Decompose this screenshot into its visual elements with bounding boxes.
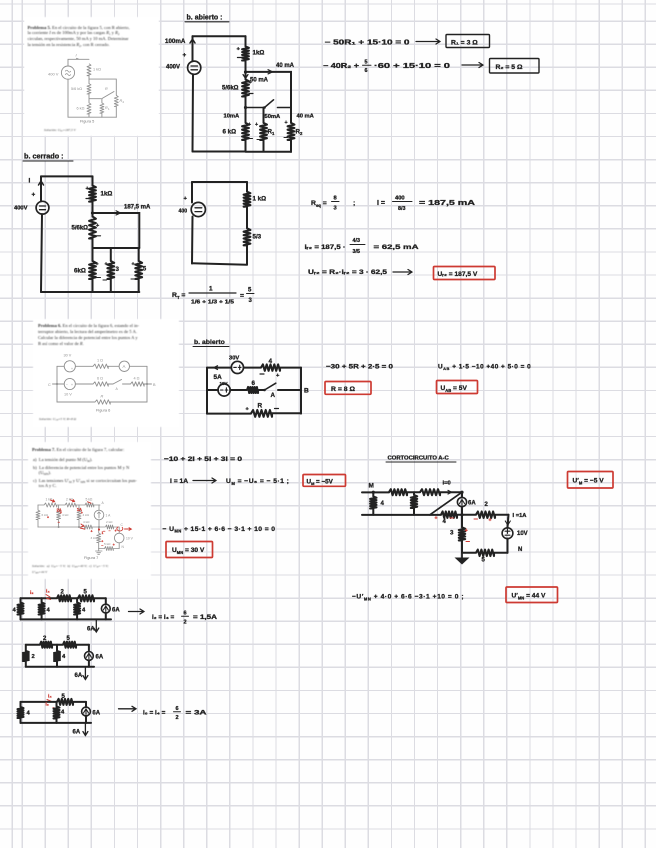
- svg-text:5: 5: [143, 266, 147, 273]
- red polarity marks resistor 2: [474, 518, 478, 520]
- wire 187,5 mA branch: [93, 213, 140, 248]
- wire top circuit B: [26, 644, 89, 646]
- svg-text:−30 + 5R + 2·5 = 0: −30 + 5R + 2·5 = 0: [326, 363, 393, 370]
- svg-text:1: 1: [108, 107, 110, 111]
- svg-text:−: −: [66, 383, 68, 387]
- svg-text:6: 6: [365, 68, 368, 74]
- resistor 2 top circuit A: [57, 595, 71, 601]
- svg-text:40 mA: 40 mA: [276, 63, 295, 69]
- resistor 4 P6: [261, 364, 280, 370]
- figura 5 wire node to R2 branch: [89, 75, 116, 95]
- svg-text:4: 4: [62, 654, 66, 660]
- resistor 4 second circuit A: [41, 598, 43, 619]
- current arrow I P5c: [39, 181, 44, 189]
- resistor 5 P5c: [138, 248, 140, 292]
- voltage source V3 simplified: [191, 182, 194, 264]
- svg-text:Figura 5: Figura 5: [80, 119, 94, 124]
- svg-text:100mA: 100mA: [165, 38, 186, 45]
- svg-text:i=0: i=0: [443, 481, 451, 487]
- svg-text:A: A: [123, 364, 126, 369]
- figura 7 resistor 4kOhm middle: [83, 525, 93, 529]
- svg-text:= 3A: = 3A: [186, 710, 208, 717]
- figura 6 left wire node C: [53, 366, 65, 402]
- resistor 4 middle circuit C: [56, 702, 58, 723]
- svg-text:+: +: [71, 367, 73, 371]
- svg-text:UM = −5V: UM = −5V: [307, 478, 334, 486]
- svg-text:+: +: [115, 529, 117, 533]
- svg-text:= 187,5 mA: = 187,5 mA: [419, 200, 475, 207]
- svg-text:2: 2: [32, 654, 35, 660]
- svg-text:4: 4: [47, 608, 51, 614]
- resistor 6kOhm P5c: [89, 261, 96, 279]
- svg-text:4 kΩ: 4 kΩ: [83, 520, 90, 524]
- svg-text:N: N: [518, 547, 522, 553]
- svg-text:UMN = 30 V: UMN = 30 V: [172, 547, 205, 555]
- figura 7 middle wire: [38, 526, 119, 528]
- arrow to equation C: [119, 706, 137, 711]
- resistor 3 P5c: [110, 248, 112, 292]
- ground symbol cortocircuito: [461, 553, 463, 558]
- svg-text:I =: I =: [377, 200, 385, 207]
- node switch level: [244, 106, 247, 109]
- svg-text:6A: 6A: [87, 627, 95, 633]
- svg-text:N: N: [122, 545, 125, 549]
- svg-text:5/3: 5/3: [253, 234, 262, 241]
- svg-text:+: +: [96, 223, 100, 229]
- svg-text:1: 1: [272, 131, 275, 136]
- svg-text:4: 4: [381, 500, 385, 507]
- figura 7 resistor 2kOhm middle: [106, 525, 114, 529]
- svg-text:− 40R₂ +: − 40R₂ +: [323, 63, 359, 70]
- figura 6 resistor 6 Ohm: [93, 382, 108, 386]
- wire bottom P5a: [193, 140, 292, 152]
- svg-text:4: 4: [61, 710, 65, 716]
- svg-text:U′MN = 44 V: U′MN = 44 V: [512, 593, 547, 601]
- wire top P6 with left arrow: [207, 367, 301, 369]
- svg-text:−: −: [66, 360, 68, 364]
- resistor 6 P6: [247, 387, 258, 393]
- arrow to R2 result: [462, 63, 483, 68]
- voltage source V2 400V: [40, 176, 42, 201]
- svg-text:UM = −U₅ = − 5·1 ;: UM = −U₅ = − 5·1 ;: [226, 478, 289, 486]
- figura 5 wire top with current arrow I: [68, 58, 89, 66]
- svg-text:A: A: [271, 392, 276, 399]
- svg-text:A: A: [116, 387, 119, 391]
- svg-text:1/6 + 1/3 + 1/5: 1/6 + 1/3 + 1/5: [191, 300, 234, 306]
- resistor R1 P5a: [260, 123, 267, 140]
- resistor R2 P5a: [288, 123, 295, 140]
- wire left P5c: [41, 214, 42, 292]
- red boxed answer UR2 = 187,5 V: [434, 267, 496, 280]
- svg-text:i₄: i₄: [48, 694, 52, 700]
- svg-text:10mA: 10mA: [224, 114, 241, 120]
- svg-text:5/6kΩ: 5/6kΩ: [72, 226, 89, 232]
- resistor 1kOhm P5c: [89, 186, 96, 202]
- svg-text:R: R: [101, 395, 104, 399]
- wire top P5c: [41, 175, 93, 177]
- svg-text:50 mA: 50 mA: [250, 78, 269, 84]
- resistor top-right cortocircuito: [420, 489, 440, 495]
- wire right P6: [300, 368, 302, 414]
- figura 7 left resistor 6kOhm: [37, 505, 39, 527]
- node top-right junction: [244, 70, 247, 73]
- voltage source 10V cortocircuito: [508, 515, 509, 528]
- svg-text:+: +: [81, 511, 83, 515]
- switch open P5a: [246, 100, 292, 108]
- svg-text:Figura 7: Figura 7: [84, 555, 98, 560]
- boxed answer R2 = 5 Ohm: [490, 59, 540, 74]
- svg-text:+: +: [489, 518, 492, 524]
- svg-text:i₂ = i₄ =: i₂ = i₄ =: [152, 614, 175, 621]
- svg-text:i₄: i₄: [46, 589, 50, 595]
- svg-text:+: +: [435, 516, 438, 522]
- wire bottom circuit B: [26, 666, 94, 668]
- svg-text:+: +: [184, 196, 188, 202]
- wire right down to bottom: [507, 539, 509, 553]
- svg-text:6: 6: [252, 380, 256, 387]
- resistor 1kOhm simplified: [246, 182, 248, 192]
- svg-text:2: 2: [485, 502, 489, 508]
- resistor 2 top circuit B: [40, 642, 52, 648]
- svg-text:+: +: [101, 540, 103, 544]
- svg-text:400V: 400V: [14, 206, 28, 212]
- figura 7 resistor 5kOhm top: [85, 503, 94, 507]
- svg-text:+: +: [255, 122, 258, 128]
- figura 5 printed voltage source 400V: [61, 66, 74, 79]
- resistor 3 vertical cortocircuito: [460, 513, 463, 516]
- wire left P6: [206, 368, 208, 414]
- resistor 5/3 simplified: [244, 228, 251, 245]
- figura 7 v-resistor 2: [58, 505, 60, 527]
- current source 6A circuit C: [85, 702, 87, 723]
- resistor 5/6kOhm P5a: [242, 80, 249, 97]
- svg-text:B: B: [153, 383, 156, 387]
- svg-text:1: 1: [209, 286, 213, 293]
- svg-text:10 V: 10 V: [64, 393, 72, 397]
- figura 6 resistor 4 Ohm: [131, 382, 145, 386]
- scan box problema 7: [28, 442, 151, 579]
- svg-text:R: R: [258, 403, 263, 410]
- svg-text:6A: 6A: [112, 607, 120, 613]
- svg-text:5/6 kΩ: 5/6 kΩ: [71, 87, 82, 91]
- resistor 5 top circuit C: [57, 699, 73, 705]
- arrow to R1 result: [416, 39, 440, 44]
- svg-text:5: 5: [84, 590, 88, 596]
- figura 7 top wire: [38, 504, 100, 506]
- svg-text:+: +: [113, 543, 115, 547]
- wire bottom circuit A: [21, 618, 112, 620]
- svg-text:−: −: [58, 520, 61, 525]
- wire R1 branch down: [263, 108, 265, 123]
- red boxed answer U'MN = 44V: [506, 587, 558, 603]
- figura 7 resistor 2kOhm top: [65, 503, 76, 507]
- figura 5 resistor 5/6 kOhm: [87, 84, 91, 94]
- svg-text:5 kΩ: 5 kΩ: [104, 542, 111, 546]
- wire top circuit C: [21, 701, 87, 703]
- svg-text:4: 4: [82, 608, 86, 614]
- svg-text:2: 2: [300, 131, 303, 136]
- svg-text:+: +: [248, 122, 251, 128]
- red boxed answer UM = -5V: [303, 475, 346, 487]
- wire top cortocircuito: [362, 491, 462, 493]
- svg-text:4: 4: [269, 358, 273, 365]
- svg-text:4 kΩ: 4 kΩ: [62, 513, 69, 517]
- svg-text:400: 400: [395, 196, 405, 202]
- svg-text:i₂: i₂: [46, 702, 49, 707]
- red boxed answer U'M = -5 V: [568, 472, 614, 489]
- red boxed answer UAB = 5V: [437, 381, 478, 394]
- svg-text:4 kΩ: 4 kΩ: [83, 513, 90, 517]
- figura 7 v-resistor 3kOhm: [98, 527, 100, 549]
- svg-text:CORTOCIRCUITO A-C: CORTOCIRCUITO A-C: [388, 456, 450, 462]
- svg-text:8/3: 8/3: [398, 206, 405, 212]
- output stub 6A circuit B: [83, 667, 88, 680]
- figura 7 source 10V: [118, 527, 120, 549]
- svg-text:+: +: [60, 511, 62, 515]
- svg-text:6: 6: [184, 611, 187, 617]
- svg-text:1kΩ: 1kΩ: [101, 191, 113, 198]
- svg-text:+: +: [237, 47, 241, 53]
- svg-text:UAB = 5V: UAB = 5V: [441, 385, 468, 393]
- svg-text:6 kΩ: 6 kΩ: [77, 107, 85, 111]
- svg-text:+: +: [47, 516, 49, 520]
- current arrow 100mA: [190, 39, 195, 48]
- node A junction and diagonal short: [460, 491, 463, 494]
- svg-text:6A: 6A: [92, 710, 100, 716]
- svg-text:+: +: [183, 52, 187, 59]
- svg-text:10V: 10V: [517, 531, 528, 537]
- current source 6A circuit B: [88, 645, 90, 667]
- resistor middle vertical cortocircuito: [413, 492, 415, 515]
- svg-text:U′M = −5 V: U′M = −5 V: [573, 478, 605, 486]
- svg-text:6: 6: [176, 706, 179, 712]
- svg-text:−U′MN + 4·0 + 6·6 −3·1 +10 =: −U′MN + 4·0 + 6·6 −3·1 +10 = 0 ;: [352, 594, 464, 602]
- svg-text:4/3: 4/3: [353, 238, 360, 244]
- svg-text:=: =: [240, 293, 244, 300]
- figura 7 resistor 1kOhm top: [44, 503, 57, 507]
- svg-text:B: B: [304, 388, 309, 395]
- svg-text:6kΩ: 6kΩ: [74, 268, 86, 275]
- arrow to UR2 result: [393, 270, 412, 275]
- svg-text:2: 2: [123, 100, 125, 104]
- figura 5 resistor R1: [101, 99, 103, 118]
- output stub 6A circuit A: [94, 619, 99, 632]
- svg-text:R = 8 Ω: R = 8 Ω: [331, 386, 355, 393]
- svg-text:Uᵣ₂ = 187,5 V: Uᵣ₂ = 187,5 V: [438, 271, 478, 278]
- svg-text:+: +: [86, 186, 90, 192]
- figura 6 node B right wire: [147, 366, 152, 402]
- svg-text:+: +: [465, 528, 468, 534]
- svg-text:3: 3: [334, 206, 337, 212]
- svg-text:C: C: [48, 383, 51, 387]
- svg-text:1 A: 1 A: [106, 514, 112, 518]
- svg-text:6A: 6A: [468, 501, 476, 507]
- svg-text:5: 5: [248, 288, 252, 294]
- current source 6A circuit A: [105, 598, 107, 619]
- figura 5 resistor 1 kOhm: [87, 64, 91, 76]
- figura 6 ammeter A: [119, 361, 129, 371]
- resistor 5 top circuit A: [78, 595, 94, 601]
- resistor 4 left vertical cortocircuito: [372, 492, 374, 515]
- svg-text:− UMN + 15·1 + 6·6 − 3·1 + 1: − UMN + 15·1 + 6·6 − 3·1 + 10 = 0: [163, 526, 276, 534]
- svg-text:−: −: [101, 544, 103, 548]
- output stub 6A circuit C: [83, 723, 88, 736]
- svg-text:1 Ω: 1 Ω: [97, 359, 103, 363]
- wire 40mA branch: [246, 72, 292, 123]
- svg-text:−: −: [109, 529, 111, 533]
- svg-text:C: C: [121, 523, 124, 527]
- resistor 4 middle horizontal: [441, 512, 457, 518]
- svg-text:2 kΩ: 2 kΩ: [106, 520, 113, 524]
- resistor 5/6kOhm P5c: [89, 217, 96, 239]
- svg-text:30 V: 30 V: [64, 354, 72, 358]
- svg-text:3: 3: [450, 530, 454, 537]
- svg-text:Uᵣ₂ = R₂·iᵣ₂ = 3 · 62,5: Uᵣ₂ = R₂·iᵣ₂ = 3 · 62,5: [308, 269, 387, 276]
- svg-text:40 mA: 40 mA: [297, 114, 315, 120]
- svg-text:5 kΩ: 5 kΩ: [86, 498, 93, 502]
- svg-text:1kΩ: 1kΩ: [253, 50, 265, 57]
- resistor 5 top circuit B: [63, 642, 76, 648]
- svg-text:4: 4: [27, 711, 31, 717]
- wire main branch upper P5a: [245, 36, 247, 79]
- svg-text:R₂ = 5 Ω: R₂ = 5 Ω: [496, 64, 523, 71]
- svg-text:187,5 mA: 187,5 mA: [124, 205, 151, 211]
- figura 6 source 10V printed: [64, 378, 75, 389]
- resistor 5 bottom: [476, 550, 494, 556]
- wire middle branch P6: [207, 389, 301, 391]
- figura 7 current source: [98, 505, 100, 527]
- svg-text:−10 + 2I + 5I + 3I = 0: −10 + 2I + 5I + 3I = 0: [164, 456, 242, 463]
- svg-text:i₆ = i₄ =: i₆ = i₄ =: [143, 710, 166, 717]
- resistor 2 left circuit B: [25, 645, 27, 667]
- svg-text:b. abierto: b. abierto: [194, 339, 225, 346]
- svg-text:3: 3: [116, 266, 120, 273]
- resistor 4 third circuit A: [76, 598, 78, 619]
- svg-text:·60 + 15·10 = 0: ·60 + 15·10 = 0: [374, 63, 450, 70]
- figura 6 switch A printed: [113, 380, 122, 385]
- wire bottom P6: [207, 412, 301, 414]
- svg-text:3/5: 3/5: [353, 249, 360, 255]
- wire main branch to switch level: [245, 96, 247, 123]
- svg-text:+: +: [71, 383, 73, 387]
- svg-text:8: 8: [334, 196, 338, 202]
- svg-text:I: I: [76, 53, 78, 58]
- svg-text:Req =: Req =: [311, 200, 327, 208]
- resistor top-left cortocircuito: [389, 489, 407, 495]
- svg-text:I: I: [29, 178, 31, 185]
- svg-text:6A: 6A: [75, 673, 83, 679]
- arrow to equation A: [129, 609, 145, 614]
- wire bottom cortocircuito: [462, 552, 508, 554]
- wire left P5a: [192, 74, 195, 151]
- svg-text:−: −: [103, 529, 106, 534]
- arrow I to UM: [193, 478, 216, 483]
- svg-text:R: R: [105, 87, 108, 91]
- figura 7 bottom wire resistor 5kOhm: [99, 548, 120, 550]
- wire main top P5c: [92, 176, 94, 216]
- wire bottom circuit C: [21, 722, 92, 724]
- red boxed answer UMN = 30 V: [166, 542, 213, 558]
- red boxed answer R = 8 Ohm: [325, 382, 371, 395]
- svg-text:6A: 6A: [73, 730, 81, 736]
- svg-text:1 kΩ: 1 kΩ: [93, 68, 101, 72]
- svg-text:5A: 5A: [214, 374, 223, 381]
- polarity resistor 4 P6: [260, 373, 264, 375]
- svg-text:+: +: [91, 530, 93, 534]
- svg-text:5: 5: [365, 60, 368, 66]
- svg-text:Figura 6: Figura 6: [96, 408, 110, 413]
- svg-text:;: ;: [353, 200, 355, 207]
- current source 6A cortocircuito: [461, 492, 463, 515]
- svg-text:+: +: [105, 262, 108, 268]
- figura 5 resistor 6 kOhm: [87, 103, 91, 114]
- svg-text:i₂: i₂: [30, 590, 34, 596]
- figura 6 source 30V printed: [64, 361, 75, 372]
- svg-text:6 Ω: 6 Ω: [97, 377, 103, 381]
- svg-text:10V: 10V: [220, 381, 228, 386]
- resistor R P6: [251, 410, 272, 417]
- boxed answer R1 = 3 Ohm: [446, 35, 490, 48]
- svg-text:I = 1A: I = 1A: [170, 478, 188, 485]
- svg-text:3 kΩ: 3 kΩ: [91, 536, 98, 540]
- svg-text:A: A: [102, 501, 105, 505]
- svg-text:1: 1: [102, 531, 104, 535]
- wire right middle simplified: [246, 207, 248, 229]
- svg-text:+: +: [246, 407, 250, 413]
- svg-text:2: 2: [176, 715, 179, 721]
- svg-text:400 V: 400 V: [48, 72, 59, 77]
- svg-text:400V: 400V: [166, 65, 180, 71]
- svg-text:2: 2: [184, 620, 187, 626]
- svg-text:+: +: [132, 262, 135, 268]
- figura 7 red annotation marks: [51, 500, 55, 502]
- svg-text:10 V: 10 V: [126, 537, 134, 541]
- svg-text:+: +: [285, 120, 288, 126]
- wire top circuit A: [21, 597, 106, 599]
- wire bottom simplified: [192, 245, 247, 265]
- figura 6 resistor 1 Ohm: [93, 364, 108, 368]
- svg-text:+: +: [32, 192, 36, 199]
- wire middle node P5c: [93, 238, 140, 261]
- svg-text:iᵣ₂ = 187,5 ·: iᵣ₂ = 187,5 ·: [305, 244, 346, 251]
- svg-text:b. abierto :: b. abierto :: [187, 15, 223, 22]
- svg-text:3: 3: [249, 298, 253, 304]
- figura 5 wire left and bottom: [68, 79, 116, 117]
- resistor 4 left circuit A: [20, 598, 22, 619]
- voltage source 30V handwritten: [231, 361, 243, 373]
- svg-text:= 62,5 mA: = 62,5 mA: [374, 244, 419, 251]
- svg-text:4 Ω: 4 Ω: [134, 377, 140, 381]
- svg-text:R₁ = 3 Ω: R₁ = 3 Ω: [451, 40, 478, 47]
- figura 6 bottom wire resistor R: [57, 401, 147, 403]
- wire middle cortocircuito: [362, 514, 509, 516]
- resistor 6kOhm P5a: [242, 123, 249, 140]
- svg-text:5/6kΩ: 5/6kΩ: [222, 86, 239, 92]
- svg-text:50mA: 50mA: [265, 114, 282, 120]
- figura 5 switch R: [89, 92, 114, 103]
- svg-text:b. cerrado :: b. cerrado :: [24, 152, 64, 161]
- resistor 4 left circuit C: [20, 702, 22, 723]
- svg-text:400: 400: [179, 209, 188, 215]
- svg-text:4: 4: [13, 608, 17, 614]
- scan box problema 5: [24, 17, 159, 136]
- node 187mA junction: [91, 211, 94, 214]
- svg-text:RT =: RT =: [172, 292, 185, 300]
- figura 5 resistor R2: [114, 95, 118, 106]
- switch A P6: [265, 383, 276, 390]
- voltage source 10V handwritten: [218, 384, 230, 396]
- svg-text:6A: 6A: [96, 655, 104, 661]
